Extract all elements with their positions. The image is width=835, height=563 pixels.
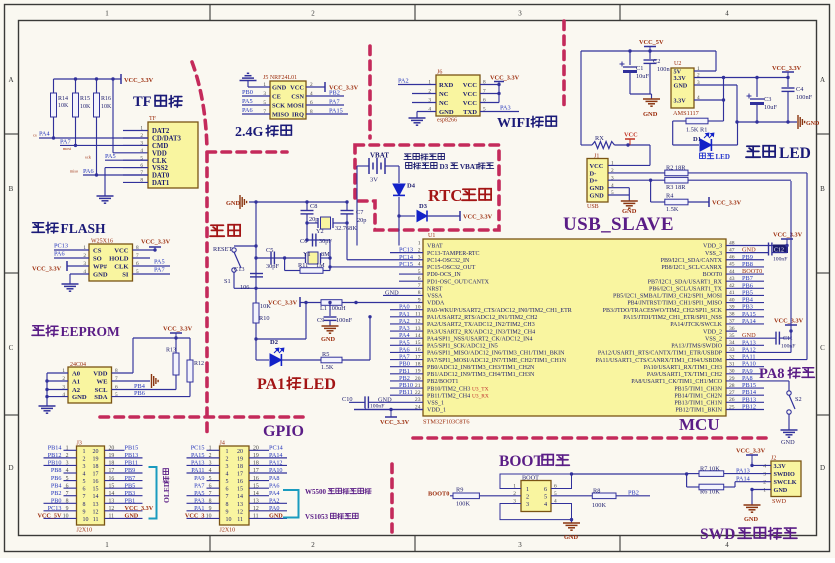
resistor R3 18R bbox=[665, 177, 688, 183]
svg-text:PB4: PB4 bbox=[134, 383, 146, 390]
svg-text:PA6: PA6 bbox=[54, 251, 65, 258]
svg-text:VSS_1: VSS_1 bbox=[427, 401, 444, 407]
ground boot bbox=[571, 520, 573, 523]
svg-text:PB0/ADC12_IN8/TIM3_CH3/TIM1_CH: PB0/ADC12_IN8/TIM3_CH3/TIM1_CH2N bbox=[427, 365, 535, 371]
svg-text:VDD_1: VDD_1 bbox=[427, 408, 446, 414]
svg-text:1: 1 bbox=[209, 446, 212, 452]
svg-text:VDDA: VDDA bbox=[427, 301, 445, 307]
svg-text:PA1: PA1 bbox=[257, 376, 285, 393]
svg-text:VCC_3: VCC_3 bbox=[185, 513, 205, 520]
svg-text:5: 5 bbox=[544, 494, 547, 501]
note text RTC bbox=[404, 154, 412, 160]
dashed separator above GPIO bbox=[100, 415, 303, 419]
svg-text:PB10: PB10 bbox=[399, 382, 413, 389]
svg-text:19: 19 bbox=[237, 456, 243, 462]
svg-text:PB2/BOOT1: PB2/BOOT1 bbox=[427, 379, 458, 385]
svg-text:C: C bbox=[9, 344, 14, 352]
svg-text:GND: GND bbox=[269, 513, 283, 520]
svg-text:R9: R9 bbox=[456, 487, 463, 494]
dashed separator below MCU bbox=[413, 436, 766, 440]
svg-text:8M: 8M bbox=[321, 251, 330, 258]
svg-text:R3 18R: R3 18R bbox=[666, 184, 686, 191]
svg-text:20: 20 bbox=[253, 446, 259, 452]
svg-text:USB_SLAVE: USB_SLAVE bbox=[563, 214, 674, 235]
svg-text:4: 4 bbox=[226, 472, 229, 478]
svg-text:VCC_3.3V: VCC_3.3V bbox=[773, 232, 803, 239]
svg-text:7: 7 bbox=[418, 283, 421, 289]
svg-text:U1: U1 bbox=[428, 233, 435, 239]
u2 pin4 tie to output bbox=[723, 78, 725, 101]
capacitor C2 bbox=[649, 51, 651, 59]
svg-text:C5: C5 bbox=[266, 247, 273, 254]
mcu left pin numbers bbox=[415, 240, 421, 410]
power VCC_3.3V rtc bbox=[427, 215, 460, 217]
svg-text:5: 5 bbox=[66, 476, 69, 482]
svg-text:J5 NRF24L01: J5 NRF24L01 bbox=[263, 75, 297, 81]
svg-text:D4: D4 bbox=[407, 183, 416, 190]
svg-text:15: 15 bbox=[93, 487, 99, 493]
svg-text:5: 5 bbox=[209, 476, 212, 482]
svg-text:PA15: PA15 bbox=[742, 311, 756, 318]
power VCC_3.3V r4 bbox=[688, 201, 709, 203]
svg-text:8: 8 bbox=[209, 498, 212, 504]
svg-text:R11: R11 bbox=[298, 262, 308, 269]
svg-text:CD/DAT3: CD/DAT3 bbox=[152, 136, 182, 143]
dashed vertical before BOOT area bbox=[390, 464, 394, 532]
svg-text:PA15/JTDI/TIM2_CH1_ETR/SPI1_NS: PA15/JTDI/TIM2_CH1_ETR/SPI1_NSS bbox=[623, 315, 722, 321]
svg-text:20p: 20p bbox=[309, 216, 318, 223]
capacitor C5 bbox=[271, 252, 274, 265]
ground wifi bbox=[409, 118, 426, 125]
svg-text:7: 7 bbox=[83, 494, 86, 500]
svg-text:PB12: PB12 bbox=[48, 452, 62, 459]
svg-text:100K: 100K bbox=[456, 501, 470, 508]
svg-text:PB3/JTDO/TRACESWO/TIM2_CH2/SPI: PB3/JTDO/TRACESWO/TIM2_CH2/SPI1_SCK bbox=[603, 308, 723, 314]
title external EEPROM bbox=[32, 326, 44, 336]
svg-text:12: 12 bbox=[109, 506, 115, 512]
svg-text:PB3: PB3 bbox=[742, 304, 753, 311]
svg-text:RXD: RXD bbox=[439, 82, 454, 89]
svg-text:D+: D+ bbox=[590, 178, 599, 185]
svg-text:R16: R16 bbox=[101, 96, 111, 102]
svg-text:S2: S2 bbox=[795, 396, 802, 403]
crystal Y2 32.768K bbox=[321, 217, 331, 229]
svg-text:VCC_3.3V: VCC_3.3V bbox=[163, 326, 193, 333]
svg-text:PB0: PB0 bbox=[242, 89, 253, 96]
battery wires bbox=[357, 165, 369, 167]
svg-text:11: 11 bbox=[253, 514, 259, 520]
svg-text:17: 17 bbox=[109, 468, 115, 474]
svg-text:PA2: PA2 bbox=[269, 497, 279, 504]
resistor R15 bbox=[74, 77, 77, 80]
u2 pin1 wire to 5V bbox=[694, 70, 716, 72]
svg-text:PB6/I2C1_SCL/USART1_TX: PB6/I2C1_SCL/USART1_TX bbox=[649, 287, 723, 293]
svg-text:EEPROM: EEPROM bbox=[61, 324, 121, 339]
eeprom WE tied to ground bbox=[112, 380, 151, 382]
svg-text:6: 6 bbox=[226, 487, 229, 493]
svg-text:PB14: PB14 bbox=[742, 389, 757, 396]
svg-text:5: 5 bbox=[83, 479, 86, 485]
svg-text:4: 4 bbox=[66, 468, 69, 474]
5V rail bbox=[581, 50, 716, 52]
svg-text:6: 6 bbox=[209, 483, 212, 489]
svg-text:D3: D3 bbox=[419, 203, 428, 210]
capacitor C12 (highlighted) bbox=[769, 243, 772, 256]
svg-text:10: 10 bbox=[226, 517, 232, 523]
svg-text:PA13: PA13 bbox=[736, 467, 750, 474]
svg-text:2: 2 bbox=[83, 456, 86, 462]
svg-text:GND: GND bbox=[781, 439, 795, 446]
svg-text:PA12/USART1_RTS/CANTX/TIM1_ETR: PA12/USART1_RTS/CANTX/TIM1_ETR/USBDP bbox=[598, 351, 723, 357]
svg-text:PA6: PA6 bbox=[83, 168, 94, 175]
ground 2.4G (flipped) bbox=[240, 73, 257, 80]
svg-text:PA14: PA14 bbox=[742, 318, 757, 325]
svg-text:SWD: SWD bbox=[700, 526, 735, 543]
svg-text:D3: D3 bbox=[439, 163, 448, 171]
svg-text:VCC: VCC bbox=[463, 100, 478, 107]
svg-text:cs: cs bbox=[33, 133, 37, 138]
svg-text:PA8: PA8 bbox=[759, 366, 785, 382]
svg-text:3: 3 bbox=[763, 472, 766, 478]
svg-text:13: 13 bbox=[237, 502, 243, 508]
svg-text:9: 9 bbox=[418, 297, 421, 303]
svg-text:GND: GND bbox=[774, 487, 788, 494]
svg-text:VCC_3.3V: VCC_3.3V bbox=[268, 300, 298, 307]
svg-text:PB2: PB2 bbox=[628, 489, 639, 496]
svg-text:L1 100uH: L1 100uH bbox=[320, 305, 346, 312]
svg-text:PA3: PA3 bbox=[194, 497, 204, 504]
svg-text:CSN: CSN bbox=[291, 94, 304, 101]
svg-text:STM32F103C8T6: STM32F103C8T6 bbox=[423, 419, 470, 426]
svg-text:Y1: Y1 bbox=[303, 251, 311, 258]
svg-text:15: 15 bbox=[109, 483, 115, 489]
gnd rail reset bbox=[249, 201, 347, 203]
label OLED interface (vertical) bbox=[162, 469, 171, 503]
svg-text:VCC_3.3V: VCC_3.3V bbox=[712, 200, 742, 207]
svg-text:GND: GND bbox=[226, 200, 240, 207]
svg-text:W5500: W5500 bbox=[305, 488, 327, 496]
svg-text:PD0-OCS_IN: PD0-OCS_IN bbox=[427, 272, 461, 278]
svg-text:19: 19 bbox=[93, 456, 99, 462]
dashed partition line below 2.4G bbox=[207, 150, 287, 154]
svg-text:RX: RX bbox=[595, 135, 604, 142]
svg-text:VDD: VDD bbox=[93, 371, 108, 378]
svg-text:18: 18 bbox=[93, 464, 99, 470]
svg-text:1: 1 bbox=[66, 446, 69, 452]
svg-text:PA5: PA5 bbox=[194, 490, 204, 497]
svg-text:R15: R15 bbox=[80, 96, 90, 102]
svg-text:1: 1 bbox=[105, 10, 109, 18]
svg-text:LED: LED bbox=[303, 376, 336, 393]
svg-text:2.4G: 2.4G bbox=[235, 125, 264, 140]
svg-text:GND: GND bbox=[674, 83, 688, 90]
svg-text:8: 8 bbox=[66, 498, 69, 504]
eeprom address ground bus bbox=[47, 372, 68, 374]
connector J4 gpio header bbox=[220, 446, 250, 525]
svg-text:3: 3 bbox=[518, 10, 522, 18]
svg-text:D2: D2 bbox=[270, 339, 278, 346]
c1 c2 gnd rail bbox=[630, 93, 652, 95]
svg-text:GND: GND bbox=[439, 109, 454, 116]
svg-text:3: 3 bbox=[226, 464, 229, 470]
svg-text:10K: 10K bbox=[80, 104, 91, 110]
svg-text:U2: U2 bbox=[674, 61, 681, 67]
svg-text:C7: C7 bbox=[356, 209, 363, 216]
svg-text:RESET: RESET bbox=[213, 246, 232, 253]
svg-text:100nF: 100nF bbox=[336, 317, 353, 324]
svg-text:14: 14 bbox=[253, 491, 259, 497]
capacitor C6 bbox=[307, 239, 330, 241]
svg-text:PB5: PB5 bbox=[742, 289, 753, 296]
connector J3 gpio header bbox=[77, 446, 105, 525]
svg-text:PB7/I2C1_SDA/USART1_RX: PB7/I2C1_SDA/USART1_RX bbox=[648, 279, 723, 285]
svg-text:PC14-OSC32_IN: PC14-OSC32_IN bbox=[427, 258, 470, 264]
u2 gnd pin wire bbox=[694, 84, 737, 86]
svg-text:2: 2 bbox=[526, 494, 529, 501]
svg-text:PB8/I2C1_SCL/CANRX: PB8/I2C1_SCL/CANRX bbox=[661, 265, 722, 271]
svg-text:PB0: PB0 bbox=[51, 497, 62, 504]
svg-text:VCC: VCC bbox=[463, 91, 478, 98]
OLED bracket bbox=[149, 467, 157, 519]
svg-text:CE: CE bbox=[272, 94, 281, 101]
capacitor C11 bbox=[776, 332, 779, 345]
svg-text:3: 3 bbox=[209, 461, 212, 467]
svg-text:PA1: PA1 bbox=[194, 505, 204, 512]
svg-text:12: 12 bbox=[253, 506, 259, 512]
svg-text:PA1: PA1 bbox=[399, 311, 410, 318]
svg-text:U3_TX: U3_TX bbox=[472, 386, 489, 392]
svg-text:5: 5 bbox=[226, 479, 229, 485]
svg-text:PB8: PB8 bbox=[51, 467, 62, 474]
svg-text:PB15: PB15 bbox=[125, 445, 139, 452]
wire PA1 row bbox=[368, 315, 371, 318]
svg-text:VBAT: VBAT bbox=[370, 152, 389, 160]
svg-text:PA7: PA7 bbox=[154, 267, 165, 274]
svg-text:1: 1 bbox=[226, 449, 229, 455]
svg-text:C2: C2 bbox=[653, 58, 660, 65]
svg-text:PC14: PC14 bbox=[399, 254, 414, 261]
NRST rail to MCU bbox=[256, 287, 423, 289]
svg-text:20p: 20p bbox=[357, 217, 366, 224]
svg-text:PA0-WKUP/USART2_CTS/ADC12_IN0/: PA0-WKUP/USART2_CTS/ADC12_IN0/TIM2_CH1_E… bbox=[427, 308, 572, 314]
svg-text:VCC_5V: VCC_5V bbox=[639, 39, 664, 46]
resistor R10 bbox=[255, 288, 257, 303]
svg-text:PB6: PB6 bbox=[51, 475, 62, 482]
svg-text:PC13: PC13 bbox=[54, 243, 68, 250]
svg-text:VCC_3.3V: VCC_3.3V bbox=[141, 239, 171, 246]
dashed RTC box bbox=[355, 145, 499, 230]
svg-text:20: 20 bbox=[93, 449, 99, 455]
svg-text:TXD: TXD bbox=[463, 109, 477, 116]
svg-text:DAT1: DAT1 bbox=[152, 180, 170, 187]
svg-text:PC14: PC14 bbox=[269, 445, 283, 452]
svg-text:8: 8 bbox=[226, 502, 229, 508]
svg-text:U3_RX: U3_RX bbox=[472, 393, 489, 399]
svg-text:C1: C1 bbox=[636, 65, 643, 72]
svg-text:16: 16 bbox=[93, 479, 99, 485]
svg-text:FLASH: FLASH bbox=[61, 221, 107, 236]
svg-text:PA8: PA8 bbox=[742, 375, 753, 382]
svg-text:C9: C9 bbox=[317, 317, 324, 324]
svg-text:BOOT0: BOOT0 bbox=[703, 272, 722, 278]
svg-text:VCC: VCC bbox=[624, 132, 638, 139]
svg-text:NC: NC bbox=[439, 100, 449, 107]
usb gnd wires bbox=[608, 187, 629, 189]
svg-text:16: 16 bbox=[253, 476, 259, 482]
svg-text:PA2: PA2 bbox=[398, 77, 409, 84]
svg-text:D: D bbox=[820, 464, 825, 472]
svg-text:7: 7 bbox=[226, 494, 229, 500]
svg-text:MISO: MISO bbox=[272, 112, 289, 119]
ground flash bbox=[62, 284, 79, 291]
svg-text:PB13: PB13 bbox=[125, 452, 139, 459]
svg-text:SDA: SDA bbox=[94, 394, 107, 401]
svg-text:PB13/TIM1_CH1N: PB13/TIM1_CH1N bbox=[674, 401, 722, 407]
svg-text:PB4: PB4 bbox=[742, 297, 754, 304]
ground power input bbox=[643, 99, 660, 106]
svg-text:C6: C6 bbox=[300, 238, 307, 245]
power rail VCC_3.3V TF bbox=[54, 78, 122, 80]
svg-text:30pF: 30pF bbox=[266, 263, 279, 270]
svg-text:32.768K: 32.768K bbox=[335, 225, 357, 232]
svg-text:PB14/TIM1_CH2N: PB14/TIM1_CH2N bbox=[674, 393, 722, 399]
svg-text:PB15: PB15 bbox=[742, 382, 756, 389]
svg-text:6: 6 bbox=[83, 487, 86, 493]
wire crystal right vertical bbox=[329, 240, 331, 271]
svg-text:PA2/USART2_TX/ADC12_IN2/TIM2_C: PA2/USART2_TX/ADC12_IN2/TIM2_CH3 bbox=[427, 322, 535, 328]
svg-text:PB7: PB7 bbox=[742, 275, 753, 282]
svg-text:mosi: mosi bbox=[63, 146, 72, 151]
svg-text:PA2: PA2 bbox=[399, 318, 410, 325]
svg-text:VDD_3: VDD_3 bbox=[703, 244, 722, 250]
svg-text:1.5K R1: 1.5K R1 bbox=[686, 127, 707, 134]
svg-text:12: 12 bbox=[237, 509, 243, 515]
svg-text:PC15: PC15 bbox=[191, 445, 205, 452]
resistor R6 10K bbox=[699, 484, 724, 490]
svg-text:PB2: PB2 bbox=[51, 490, 62, 497]
svg-text:SWDIO: SWDIO bbox=[774, 471, 796, 478]
mcu pin name texts bbox=[427, 244, 723, 414]
resistor R9 100K bbox=[450, 495, 453, 497]
svg-text:PA10: PA10 bbox=[742, 361, 756, 368]
svg-text:17: 17 bbox=[237, 472, 243, 478]
svg-text:VSSA: VSSA bbox=[427, 294, 443, 300]
svg-text:PA7: PA7 bbox=[399, 354, 410, 361]
svg-text:PA13: PA13 bbox=[191, 460, 205, 467]
svg-text:1: 1 bbox=[83, 449, 86, 455]
svg-text:PA6: PA6 bbox=[399, 346, 410, 353]
svg-text:PB9: PB9 bbox=[125, 467, 136, 474]
wifi GND wire bbox=[417, 111, 436, 113]
svg-text:GND: GND bbox=[564, 534, 578, 541]
svg-text:TF: TF bbox=[133, 94, 152, 110]
mcu row4 crystal connection bbox=[329, 267, 331, 271]
svg-text:PA5: PA5 bbox=[105, 153, 116, 160]
svg-text:PA13: PA13 bbox=[742, 339, 756, 346]
dashed partition line mid vertical bbox=[368, 46, 372, 138]
svg-text:sck: sck bbox=[85, 155, 92, 160]
svg-text:PA14: PA14 bbox=[736, 475, 751, 482]
svg-text:A: A bbox=[8, 76, 13, 84]
svg-text:4: 4 bbox=[140, 148, 143, 154]
svg-text:13: 13 bbox=[253, 498, 259, 504]
capacitor C8 bbox=[306, 202, 308, 210]
svg-text:SWD: SWD bbox=[772, 498, 786, 505]
svg-text:VCC_3.3V: VCC_3.3V bbox=[772, 65, 802, 72]
svg-text:PA12: PA12 bbox=[269, 460, 283, 467]
svg-text:11: 11 bbox=[93, 517, 99, 523]
svg-text:VCC_3.3V: VCC_3.3V bbox=[124, 77, 154, 84]
eeprom VDD wire bbox=[112, 372, 134, 374]
svg-text:RTC: RTC bbox=[428, 186, 462, 205]
ground swd bbox=[744, 505, 761, 512]
svg-text:PA11/USART1_CTS/CANRX/TIM1_CH4: PA11/USART1_CTS/CANRX/TIM1_CH4/USBDM bbox=[595, 358, 722, 364]
svg-text:14: 14 bbox=[237, 494, 243, 500]
svg-text:10K: 10K bbox=[101, 104, 112, 110]
svg-text:11: 11 bbox=[109, 514, 115, 520]
flash GND pin wire bbox=[70, 273, 89, 275]
svg-text:J4: J4 bbox=[220, 441, 225, 447]
svg-text:C13: C13 bbox=[234, 266, 245, 273]
svg-text:C4: C4 bbox=[796, 86, 804, 93]
svg-text:SI: SI bbox=[122, 272, 129, 279]
svg-text:1: 1 bbox=[526, 486, 529, 493]
svg-text:106: 106 bbox=[240, 284, 249, 291]
svg-text:VCC_3.3V: VCC_3.3V bbox=[774, 318, 804, 325]
svg-text:3V: 3V bbox=[370, 177, 378, 184]
svg-text:1: 1 bbox=[418, 240, 421, 246]
svg-text:PB3: PB3 bbox=[125, 490, 136, 497]
svg-text:SWCLK: SWCLK bbox=[774, 479, 797, 486]
svg-text:GND: GND bbox=[742, 247, 756, 254]
svg-text:C8: C8 bbox=[310, 203, 317, 210]
svg-text:GND: GND bbox=[72, 394, 87, 401]
svg-text:R6 10K: R6 10K bbox=[700, 489, 720, 496]
svg-text:1.5K: 1.5K bbox=[666, 206, 679, 213]
svg-text:PA4: PA4 bbox=[399, 332, 410, 339]
svg-text:4: 4 bbox=[209, 468, 212, 474]
svg-text:2: 2 bbox=[66, 453, 69, 459]
svg-text:PB10: PB10 bbox=[48, 460, 62, 467]
svg-text:BOOT0: BOOT0 bbox=[742, 268, 762, 275]
usb d+ wire to R3 bbox=[608, 179, 665, 181]
svg-text:20: 20 bbox=[237, 449, 243, 455]
wire VDD_1 to VCC bbox=[354, 408, 423, 410]
svg-text:PA9: PA9 bbox=[742, 368, 753, 375]
svg-text:6: 6 bbox=[66, 483, 69, 489]
ground S2 bbox=[788, 414, 790, 430]
wifi NC stubs bbox=[412, 93, 436, 95]
svg-text:4: 4 bbox=[725, 10, 729, 18]
svg-text:13: 13 bbox=[109, 498, 115, 504]
svg-text:R5: R5 bbox=[322, 351, 329, 358]
svg-text:PA3: PA3 bbox=[399, 325, 410, 332]
svg-text:A1: A1 bbox=[72, 379, 80, 386]
svg-text:VCC: VCC bbox=[114, 248, 129, 255]
inductor L1 bbox=[300, 302, 321, 304]
svg-text:B: B bbox=[820, 185, 825, 193]
svg-text:PA4: PA4 bbox=[39, 131, 50, 138]
svg-text:VCC_3.3V: VCC_3.3V bbox=[736, 448, 766, 455]
svg-text:PA4: PA4 bbox=[269, 490, 279, 497]
dashed partition line left (curved top) bbox=[192, 62, 207, 435]
svg-text:100nF: 100nF bbox=[773, 257, 787, 263]
power VCC_3.3V c12 bbox=[781, 238, 793, 240]
svg-text:PB12: PB12 bbox=[742, 403, 756, 410]
svg-text:2: 2 bbox=[209, 453, 212, 459]
svg-text:3.3V: 3.3V bbox=[774, 463, 787, 470]
W5500 bracket bbox=[283, 490, 299, 518]
